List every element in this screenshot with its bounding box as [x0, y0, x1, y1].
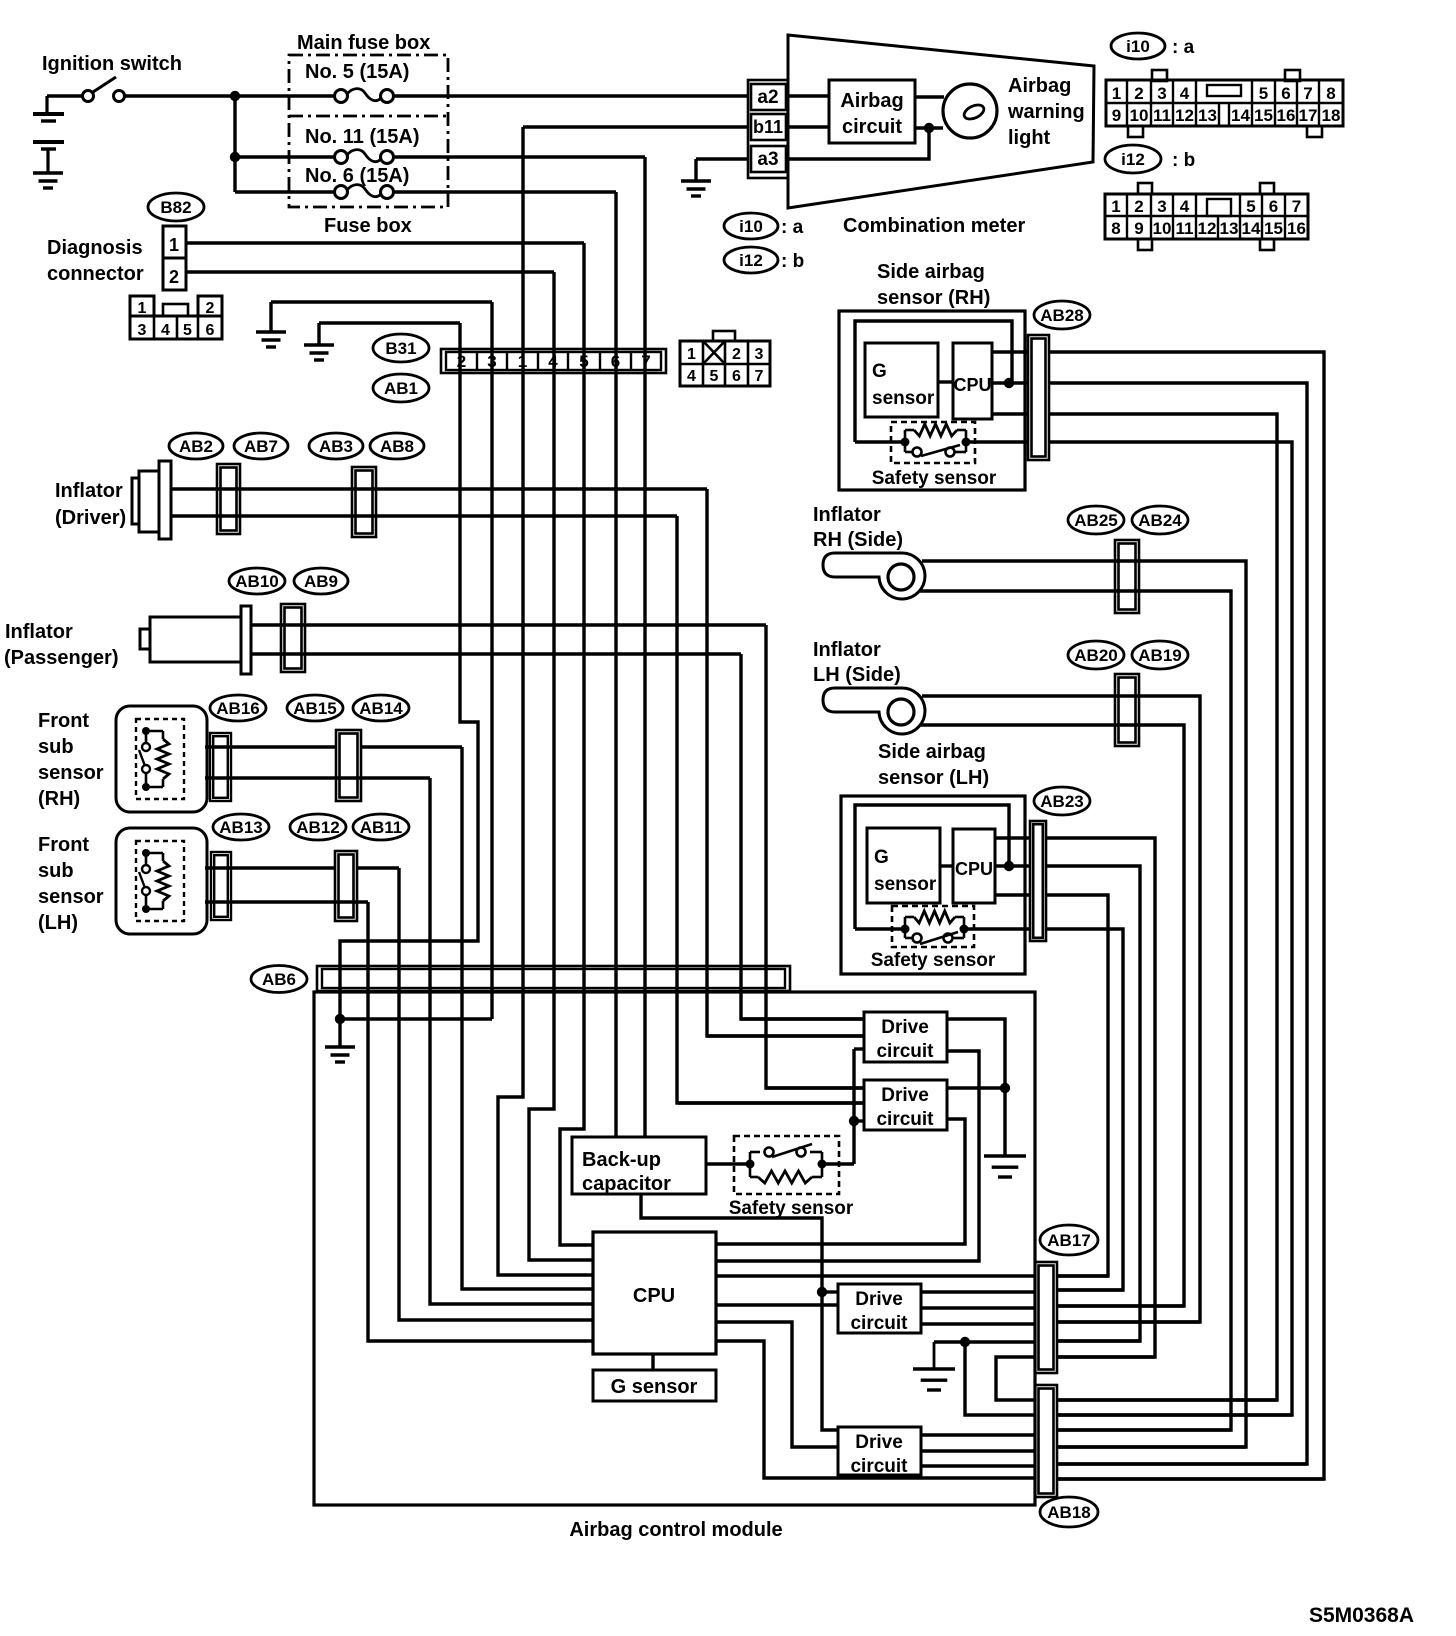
svg-text:circuit: circuit — [850, 1313, 908, 1334]
svg-text:AB25: AB25 — [1074, 511, 1117, 530]
svg-text:sensor (LH): sensor (LH) — [878, 767, 989, 789]
svg-text:13: 13 — [1220, 219, 1239, 238]
svg-text:sub: sub — [38, 736, 74, 758]
svg-text:: b: : b — [1172, 150, 1195, 171]
svg-text:AB14: AB14 — [359, 699, 403, 718]
svg-text:B82: B82 — [160, 198, 191, 217]
svg-text:AB13: AB13 — [219, 818, 262, 837]
svg-text:AB3: AB3 — [319, 437, 353, 456]
svg-text:sensor: sensor — [38, 762, 104, 784]
svg-text:Airbag: Airbag — [840, 90, 903, 112]
svg-text:3: 3 — [1157, 197, 1166, 216]
svg-text:Safety sensor: Safety sensor — [729, 1198, 854, 1219]
svg-text:15: 15 — [1254, 106, 1273, 125]
svg-text:AB28: AB28 — [1040, 306, 1083, 325]
svg-text:10: 10 — [1153, 219, 1172, 238]
svg-text:13: 13 — [1198, 106, 1217, 125]
svg-text:2: 2 — [206, 300, 215, 317]
svg-text:Combination meter: Combination meter — [843, 215, 1025, 237]
svg-text:11: 11 — [1153, 106, 1171, 125]
svg-text:Drive: Drive — [881, 1017, 929, 1038]
svg-text:Safety sensor: Safety sensor — [872, 468, 997, 489]
svg-text:i10: i10 — [739, 217, 763, 236]
svg-text:AB15: AB15 — [293, 699, 336, 718]
svg-text:AB10: AB10 — [235, 572, 278, 591]
svg-text:circuit: circuit — [850, 1456, 908, 1477]
svg-text:Inflator: Inflator — [813, 504, 881, 526]
svg-text:9: 9 — [1134, 219, 1143, 238]
svg-text:4: 4 — [1180, 197, 1190, 216]
svg-text:Airbag control module: Airbag control module — [569, 1519, 782, 1541]
svg-text:sensor: sensor — [872, 388, 935, 409]
svg-text:i12: i12 — [1121, 150, 1145, 169]
svg-text:Fuse box: Fuse box — [324, 215, 412, 237]
svg-text:2: 2 — [1134, 197, 1143, 216]
svg-text:sensor (RH): sensor (RH) — [877, 287, 990, 309]
svg-text:AB17: AB17 — [1047, 1231, 1090, 1250]
svg-text:i12: i12 — [739, 251, 763, 270]
svg-text:3: 3 — [1157, 84, 1166, 103]
svg-text:Safety sensor: Safety sensor — [871, 950, 996, 971]
svg-text:3: 3 — [138, 322, 147, 339]
svg-text:12: 12 — [1175, 106, 1194, 125]
svg-text:AB2: AB2 — [179, 437, 213, 456]
svg-text:Airbag: Airbag — [1008, 75, 1071, 97]
svg-text:AB24: AB24 — [1138, 511, 1182, 530]
svg-text:4: 4 — [1180, 84, 1190, 103]
svg-text:G sensor: G sensor — [611, 1376, 698, 1398]
svg-text:1: 1 — [1111, 197, 1120, 216]
svg-text:AB18: AB18 — [1047, 1503, 1090, 1522]
svg-text:Back-up: Back-up — [582, 1149, 661, 1171]
svg-text:Side airbag: Side airbag — [877, 261, 985, 283]
svg-text:6: 6 — [1281, 84, 1290, 103]
svg-text:Inflator: Inflator — [813, 639, 881, 661]
svg-text:a2: a2 — [757, 87, 778, 108]
svg-text:AB11: AB11 — [360, 818, 403, 837]
svg-text:: a: : a — [781, 217, 804, 238]
svg-text:a3: a3 — [757, 149, 778, 170]
svg-text:AB7: AB7 — [244, 437, 278, 456]
svg-text:S5M0368A: S5M0368A — [1309, 1604, 1414, 1627]
svg-text:No. 11 (15A): No. 11 (15A) — [305, 126, 419, 148]
svg-text:4: 4 — [161, 322, 170, 339]
svg-text:7: 7 — [1292, 197, 1301, 216]
svg-text:(Passenger): (Passenger) — [4, 647, 119, 669]
svg-text:1: 1 — [1112, 84, 1121, 103]
svg-text:sensor: sensor — [38, 886, 104, 908]
svg-text:AB16: AB16 — [216, 699, 259, 718]
svg-text:16: 16 — [1287, 219, 1306, 238]
svg-text:Front: Front — [38, 834, 89, 856]
svg-text:12: 12 — [1198, 219, 1217, 238]
svg-text:Side airbag: Side airbag — [878, 741, 986, 763]
svg-text:4: 4 — [687, 368, 696, 385]
svg-text:Main fuse box: Main fuse box — [297, 32, 430, 54]
svg-text:B31: B31 — [385, 339, 416, 358]
svg-text:(Driver): (Driver) — [55, 507, 126, 529]
svg-text:capacitor: capacitor — [582, 1173, 671, 1195]
svg-text:circuit: circuit — [876, 1109, 934, 1130]
svg-text:2: 2 — [169, 267, 179, 287]
svg-text:AB1: AB1 — [384, 379, 418, 398]
svg-text:5: 5 — [183, 322, 192, 339]
svg-text:AB6: AB6 — [262, 970, 296, 989]
svg-text:circuit: circuit — [876, 1041, 934, 1062]
svg-text:AB12: AB12 — [296, 818, 339, 837]
svg-text:CPU: CPU — [633, 1285, 675, 1307]
svg-text:LH (Side): LH (Side) — [813, 664, 901, 686]
svg-text:11: 11 — [1176, 219, 1194, 238]
svg-text:Diagnosis: Diagnosis — [47, 237, 143, 259]
svg-text:18: 18 — [1322, 106, 1341, 125]
svg-text:connector: connector — [47, 263, 144, 285]
svg-text:G: G — [872, 361, 887, 382]
svg-text:8: 8 — [1326, 84, 1335, 103]
svg-text:AB23: AB23 — [1040, 792, 1083, 811]
svg-text:CPU: CPU — [953, 375, 991, 395]
svg-text:6: 6 — [732, 368, 741, 385]
svg-text:Inflator: Inflator — [5, 621, 73, 643]
svg-text:Ignition switch: Ignition switch — [42, 53, 182, 75]
svg-text:16: 16 — [1277, 106, 1296, 125]
svg-text:9: 9 — [1112, 106, 1121, 125]
svg-text:b11: b11 — [753, 117, 783, 137]
svg-text:AB19: AB19 — [1138, 646, 1181, 665]
svg-text:Inflator: Inflator — [55, 480, 123, 502]
svg-text:RH (Side): RH (Side) — [813, 529, 903, 551]
svg-text:7: 7 — [1303, 84, 1312, 103]
svg-text:1: 1 — [687, 346, 696, 363]
svg-text:14: 14 — [1231, 106, 1250, 125]
svg-text:Front: Front — [38, 710, 89, 732]
svg-text:5: 5 — [1246, 197, 1255, 216]
svg-text:15: 15 — [1264, 219, 1283, 238]
svg-text:Drive: Drive — [855, 1289, 903, 1310]
svg-text:1: 1 — [138, 300, 147, 317]
svg-text:14: 14 — [1242, 219, 1261, 238]
svg-text:10: 10 — [1130, 106, 1149, 125]
svg-text:6: 6 — [1269, 197, 1278, 216]
svg-text:(LH): (LH) — [38, 912, 78, 934]
svg-text:Drive: Drive — [855, 1432, 903, 1453]
svg-text:Drive: Drive — [881, 1085, 929, 1106]
svg-text:8: 8 — [1111, 219, 1120, 238]
svg-text:No. 5 (15A): No. 5 (15A) — [305, 61, 409, 83]
svg-text:: b: : b — [781, 251, 804, 272]
svg-text:circuit: circuit — [842, 116, 902, 138]
svg-text:CPU: CPU — [955, 859, 993, 879]
svg-text:sensor: sensor — [874, 874, 937, 895]
svg-text:: a: : a — [1172, 37, 1195, 58]
svg-text:5: 5 — [1259, 84, 1268, 103]
svg-text:AB8: AB8 — [380, 437, 414, 456]
svg-text:7: 7 — [755, 368, 764, 385]
svg-text:sub: sub — [38, 860, 74, 882]
svg-text:light: light — [1008, 127, 1051, 149]
svg-text:17: 17 — [1299, 106, 1318, 125]
svg-text:3: 3 — [755, 346, 764, 363]
svg-text:2: 2 — [1134, 84, 1143, 103]
svg-text:1: 1 — [169, 235, 179, 255]
svg-text:2: 2 — [732, 346, 741, 363]
svg-text:6: 6 — [206, 322, 215, 339]
svg-text:(RH): (RH) — [38, 788, 80, 810]
svg-text:warning: warning — [1007, 101, 1085, 123]
svg-text:5: 5 — [710, 368, 719, 385]
svg-text:AB9: AB9 — [304, 572, 338, 591]
svg-text:i10: i10 — [1126, 37, 1150, 56]
svg-text:G: G — [874, 847, 889, 868]
svg-text:AB20: AB20 — [1074, 646, 1117, 665]
